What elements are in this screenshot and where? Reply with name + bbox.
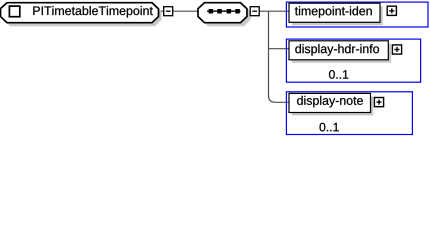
child 1 label (295, 6, 372, 18)
child 3 label (297, 96, 363, 108)
child 2 container (blue) (286, 39, 420, 82)
sequence compositor shadow (202, 5, 251, 26)
child 1 name box shadow (292, 6, 383, 25)
element icon (square) (9, 6, 19, 17)
child 1 container (blue) (286, 2, 428, 27)
child 2 expand icon (plus) (392, 45, 401, 54)
wire: vertical branch line (269, 11, 290, 102)
child 3 container (blue) (286, 92, 412, 135)
child 2 label (295, 44, 379, 56)
wire: expand box 2 to child 1 (timepoint-iden) (259, 10, 290, 12)
expand box 2 (minus) (250, 7, 259, 16)
sequence compositor box (198, 3, 247, 23)
element PITimetableTimepoint shadow (4, 5, 162, 26)
wire: stub to child 2 (display-hdr-info) (269, 48, 290, 50)
element PITimetableTimepoint box (1, 3, 159, 23)
wire: element to expand box 1 (157, 10, 164, 12)
child 2 name box (display-hdr-info) (289, 41, 388, 60)
child 3 expand icon (plus) (374, 98, 383, 107)
child 1 name box (timepoint-iden) (289, 3, 380, 22)
child 3 occurrence label 0..1 (320, 123, 339, 132)
child 1 expand icon (plus) (387, 6, 396, 15)
expand box 1 (minus) (164, 7, 173, 16)
child 2 name box shadow (292, 44, 391, 63)
child 3 name box shadow (292, 96, 374, 115)
child 2 occurrence label 0..1 (329, 70, 348, 79)
element PITimetableTimepoint label (33, 6, 152, 18)
wire: expand box 1 to sequence (173, 10, 200, 12)
child 3 name box (display-note) (289, 93, 371, 112)
sequence icon: line with 4 dots (207, 10, 241, 12)
